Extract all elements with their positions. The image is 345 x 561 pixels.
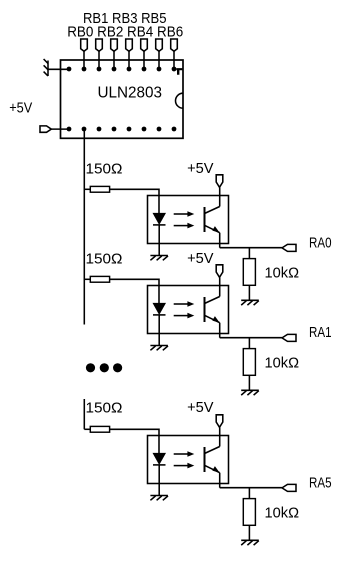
svg-text:ULN2803: ULN2803 xyxy=(98,84,163,101)
opto arrow 2 (RA1 section) xyxy=(174,313,195,319)
wire emitter down xyxy=(219,473,221,488)
svg-text:150Ω: 150Ω xyxy=(86,161,123,178)
terminal RB4 xyxy=(141,39,148,51)
IC U1 notch xyxy=(176,93,183,108)
IC pin dot top 7 xyxy=(157,67,162,72)
wire RB5 to U1 xyxy=(158,51,160,69)
svg-text:RA5: RA5 xyxy=(309,475,332,492)
optocoupler U4 body xyxy=(148,436,229,484)
opto arrow 1 (RA1 section) xyxy=(174,301,195,307)
optocoupler U3 body xyxy=(148,286,229,334)
resistor 10kΩ R5 xyxy=(243,349,255,376)
IC pin dot bottom 3 xyxy=(97,127,102,132)
svg-text:+5V: +5V xyxy=(187,399,213,416)
svg-text:+5V: +5V xyxy=(187,250,213,267)
wire 10k to ground xyxy=(248,375,250,390)
wire R3 to opto LED xyxy=(110,429,159,453)
svg-text:10kΩ: 10kΩ xyxy=(265,505,300,522)
terminal RB6 xyxy=(171,39,178,51)
power terminal +5V (left) xyxy=(40,126,51,132)
wire LED cathode to ground xyxy=(158,465,160,495)
optocoupler U2 body xyxy=(148,196,229,244)
opto LED D3 xyxy=(153,453,166,464)
opto LED D2 xyxy=(153,303,166,314)
ground (10k RA5 section) xyxy=(241,540,259,545)
svg-text:RA1: RA1 xyxy=(309,324,332,341)
wire RB1 to U1 xyxy=(98,51,100,69)
svg-text:150Ω: 150Ω xyxy=(86,400,123,417)
IC pin dot top 5 xyxy=(127,67,132,72)
opto arrow 2 (RA0 section) xyxy=(174,223,195,229)
wire bus from U1 pin down xyxy=(83,129,85,325)
wire emitter down xyxy=(219,233,221,248)
terminal RB2 xyxy=(111,39,118,51)
wire LED cathode to ground xyxy=(158,315,160,345)
wire 10k to ground xyxy=(248,525,250,540)
svg-text:+5V: +5V xyxy=(9,100,32,117)
wire collector to +5V xyxy=(219,277,221,296)
chassis symbol xyxy=(44,59,48,76)
resistor 150Ω R2 xyxy=(90,276,109,282)
power terminal +5V (RA5 section) xyxy=(216,415,223,428)
wire junction to resistor 10k xyxy=(248,488,250,499)
ground (LED RA1 section) xyxy=(150,346,168,351)
IC pin dot bottom 5 xyxy=(127,127,132,132)
wire junction to resistor 10k xyxy=(248,338,250,349)
opto phototransistor Q2 xyxy=(205,297,220,323)
ground (LED RA0 section) xyxy=(150,256,168,261)
IC pin dot top 4 xyxy=(112,67,117,72)
svg-text:10kΩ: 10kΩ xyxy=(265,265,300,282)
svg-text:RA0: RA0 xyxy=(309,235,332,252)
wire emitter down xyxy=(219,323,221,338)
terminal RB0 xyxy=(81,39,88,51)
opto arrow 2 (RA5 section) xyxy=(174,463,195,469)
wire +5V to U1 xyxy=(51,128,69,130)
wire RB0 to U1 xyxy=(83,51,85,69)
wire junction to resistor 10k xyxy=(248,248,250,259)
IC pin dot top 6 xyxy=(142,67,147,72)
ellipsis continuation dots xyxy=(86,363,122,372)
IC pin dot bottom 6 xyxy=(142,127,147,132)
svg-text:RB0 RB2 RB4 RB6: RB0 RB2 RB4 RB6 xyxy=(67,24,183,41)
svg-text:150Ω: 150Ω xyxy=(86,251,123,268)
IC pin dot top 8 xyxy=(172,67,177,72)
power terminal +5V (RA1 section) xyxy=(216,265,223,278)
ground (LED RA5 section) xyxy=(150,496,168,501)
wire bus to resistor R1 xyxy=(84,188,90,190)
wire stub (RA5 section) xyxy=(83,399,85,429)
svg-text:+5V: +5V xyxy=(187,160,213,177)
wire RB4 to U1 xyxy=(143,51,145,69)
terminal RB1 xyxy=(96,39,103,51)
wire RB3 to U1 xyxy=(128,51,130,69)
terminal RA1 xyxy=(282,334,296,341)
opto phototransistor Q3 xyxy=(205,447,220,473)
IC pin dot bottom 4 xyxy=(112,127,117,132)
IC U1 pin-1 mark xyxy=(176,68,182,75)
terminal RA0 xyxy=(282,244,296,251)
ground (10k RA0 section) xyxy=(241,300,259,305)
terminal RB3 xyxy=(126,39,133,51)
IC pin dot top 3 xyxy=(97,67,102,72)
wire LED cathode to ground xyxy=(158,225,160,255)
wire bus to resistor R2 xyxy=(84,278,90,280)
resistor 150Ω R3 xyxy=(90,426,109,432)
IC pin dot bottom 2 xyxy=(82,127,87,132)
wire collector to +5V xyxy=(219,187,221,206)
IC pin dot bottom 7 xyxy=(157,127,162,132)
wire chassis to U1 pin xyxy=(48,68,69,70)
wire collector to +5V xyxy=(219,427,221,446)
wire RB2 to U1 xyxy=(113,51,115,69)
ground (10k RA1 section) xyxy=(241,390,259,395)
wire R2 to opto LED xyxy=(110,279,159,303)
opto arrow 1 (RA5 section) xyxy=(174,451,195,457)
IC U1 ULN2803 body xyxy=(61,60,184,138)
IC pin dot bottom 8 xyxy=(172,127,177,132)
opto phototransistor Q1 xyxy=(205,207,220,233)
resistor 10kΩ R4 xyxy=(243,259,255,286)
wire R1 to opto LED xyxy=(110,189,159,213)
wire bus to resistor R3 xyxy=(84,428,90,430)
opto LED D1 xyxy=(153,213,166,224)
power terminal +5V (RA0 section) xyxy=(216,175,223,188)
wire emitter to terminal RA5 xyxy=(220,487,282,489)
wire emitter to terminal RA1 xyxy=(220,337,282,339)
opto arrow 1 (RA0 section) xyxy=(174,211,195,217)
resistor 150Ω R1 xyxy=(90,186,109,192)
resistor 10kΩ R6 xyxy=(243,499,255,526)
wire 10k to ground xyxy=(248,285,250,300)
wire RB6 to U1 xyxy=(173,51,175,69)
IC pin dot bottom 1 xyxy=(67,127,72,132)
terminal RA5 xyxy=(282,484,296,491)
svg-text:10kΩ: 10kΩ xyxy=(265,355,300,372)
wire emitter to terminal RA0 xyxy=(220,247,282,249)
IC pin dot top 1 xyxy=(67,67,72,72)
terminal RB5 xyxy=(156,39,163,51)
IC pin dot top 2 xyxy=(82,67,87,72)
